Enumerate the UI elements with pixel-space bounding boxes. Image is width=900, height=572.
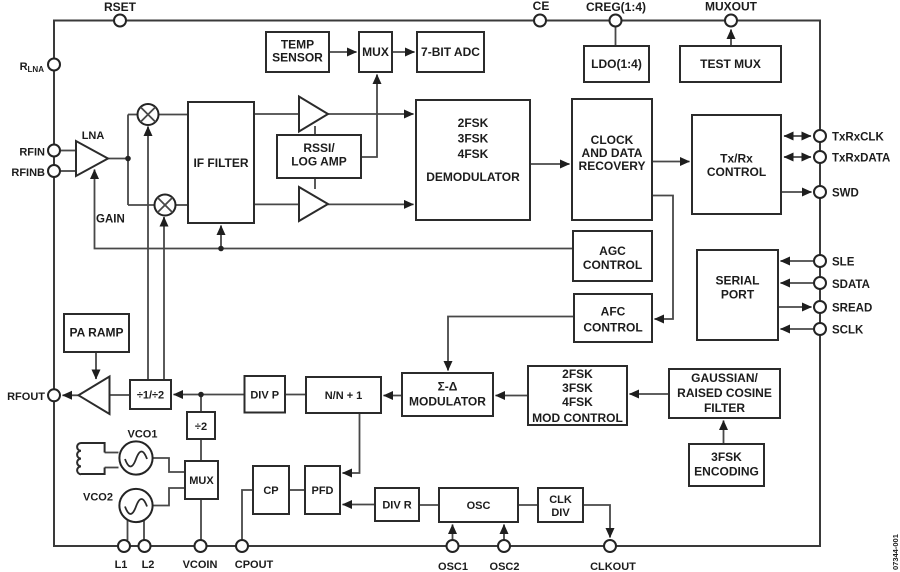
- svg-text:MUX: MUX: [362, 45, 389, 59]
- svg-text:4FSK: 4FSK: [562, 395, 593, 409]
- svg-text:2FSK: 2FSK: [458, 116, 489, 130]
- svg-text:DEMODULATOR: DEMODULATOR: [426, 170, 520, 184]
- svg-text:CP: CP: [263, 485, 278, 497]
- svg-text:AND DATA: AND DATA: [582, 146, 643, 160]
- svg-text:RSET: RSET: [104, 0, 137, 14]
- svg-text:DIV: DIV: [551, 507, 570, 519]
- svg-text:TEMP: TEMP: [281, 38, 314, 52]
- svg-text:SDATA: SDATA: [832, 279, 870, 291]
- svg-text:VCO2: VCO2: [83, 492, 113, 504]
- svg-text:SERIAL: SERIAL: [715, 274, 759, 288]
- svg-text:Tx/Rx: Tx/Rx: [720, 152, 753, 166]
- svg-text:GAIN: GAIN: [96, 214, 125, 226]
- svg-text:MUX: MUX: [189, 475, 214, 487]
- svg-text:RFINB: RFINB: [11, 167, 45, 179]
- svg-text:RAISED COSINE: RAISED COSINE: [677, 386, 772, 400]
- svg-text:3FSK: 3FSK: [562, 381, 593, 395]
- svg-text:PA RAMP: PA RAMP: [70, 326, 124, 340]
- svg-text:TxRxDATA: TxRxDATA: [832, 153, 890, 165]
- svg-text:GAUSSIAN/: GAUSSIAN/: [691, 371, 758, 385]
- svg-text:SCLK: SCLK: [832, 325, 864, 337]
- svg-text:SWD: SWD: [832, 188, 859, 200]
- svg-text:N/N + 1: N/N + 1: [325, 390, 363, 402]
- svg-text:AGC: AGC: [599, 244, 626, 258]
- svg-text:RFOUT: RFOUT: [7, 391, 45, 403]
- svg-text:OSC1: OSC1: [438, 561, 468, 572]
- svg-text:2FSK: 2FSK: [562, 367, 593, 381]
- svg-text:÷1/÷2: ÷1/÷2: [137, 390, 164, 402]
- svg-text:RLNA: RLNA: [20, 61, 45, 74]
- svg-text:SLE: SLE: [832, 257, 855, 269]
- svg-text:LDO(1:4): LDO(1:4): [591, 57, 642, 71]
- svg-text:CE: CE: [533, 0, 550, 13]
- svg-text:MOD CONTROL: MOD CONTROL: [532, 411, 623, 425]
- svg-text:IF FILTER: IF FILTER: [193, 156, 248, 170]
- svg-text:CONTROL: CONTROL: [583, 321, 642, 335]
- svg-text:L1: L1: [115, 559, 128, 571]
- svg-text:CLOCK: CLOCK: [591, 133, 634, 147]
- svg-text:CREG(1:4): CREG(1:4): [586, 0, 646, 14]
- svg-text:LNA: LNA: [82, 130, 105, 142]
- svg-text:7-BIT ADC: 7-BIT ADC: [421, 45, 480, 59]
- svg-text:TxRxCLK: TxRxCLK: [832, 132, 884, 144]
- svg-text:RECOVERY: RECOVERY: [579, 159, 646, 173]
- svg-text:OSC: OSC: [467, 500, 491, 512]
- svg-text:MUXOUT: MUXOUT: [705, 0, 758, 14]
- svg-text:3FSK: 3FSK: [458, 132, 489, 146]
- svg-text:4FSK: 4FSK: [458, 147, 489, 161]
- svg-text:RSSI/: RSSI/: [303, 141, 335, 155]
- svg-text:PORT: PORT: [721, 288, 755, 302]
- svg-text:L2: L2: [142, 559, 155, 571]
- svg-text:CLK: CLK: [549, 494, 572, 506]
- svg-text:SREAD: SREAD: [832, 303, 872, 315]
- svg-text:CLKOUT: CLKOUT: [590, 561, 636, 572]
- svg-text:3FSK: 3FSK: [711, 450, 742, 464]
- svg-text:OSC2: OSC2: [490, 561, 520, 572]
- svg-text:ENCODING: ENCODING: [694, 465, 759, 479]
- svg-text:TEST MUX: TEST MUX: [700, 57, 761, 71]
- svg-text:÷2: ÷2: [195, 421, 207, 433]
- svg-text:AFC: AFC: [601, 305, 626, 319]
- svg-text:PFD: PFD: [312, 485, 334, 497]
- svg-text:LOG AMP: LOG AMP: [291, 155, 347, 169]
- svg-text:07344-001: 07344-001: [891, 534, 900, 570]
- svg-text:CONTROL: CONTROL: [583, 258, 642, 272]
- svg-text:VCO1: VCO1: [128, 429, 158, 441]
- svg-text:Σ-Δ: Σ-Δ: [438, 380, 458, 394]
- svg-text:DIV P: DIV P: [250, 390, 279, 402]
- svg-text:CONTROL: CONTROL: [707, 165, 766, 179]
- svg-text:RFIN: RFIN: [19, 147, 45, 159]
- svg-text:SENSOR: SENSOR: [272, 51, 323, 65]
- svg-text:FILTER: FILTER: [704, 401, 745, 415]
- svg-text:MODULATOR: MODULATOR: [409, 395, 486, 409]
- svg-text:CPOUT: CPOUT: [235, 559, 274, 571]
- svg-text:DIV R: DIV R: [382, 500, 411, 512]
- svg-text:VCOIN: VCOIN: [183, 559, 218, 571]
